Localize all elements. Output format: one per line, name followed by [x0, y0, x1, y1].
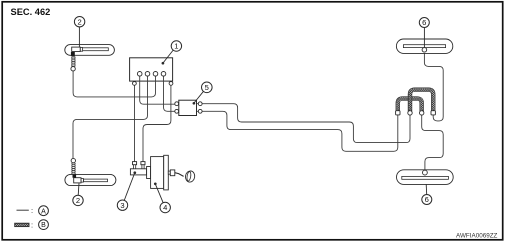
front LH caliper fitting box: [72, 47, 81, 51]
master cylinder fitting 2 square: [141, 162, 145, 165]
label 5 leader: [193, 91, 204, 104]
label 2 bottom leader: [77, 183, 80, 195]
svg-text::: :: [31, 221, 33, 230]
master cylinder fitting 1 legs: [134, 165, 136, 169]
connector block 5 body: [179, 100, 197, 115]
label 2 bottom circle: [73, 195, 83, 205]
label 6 top circle: [419, 18, 429, 28]
master cylinder M/C body: [130, 169, 146, 175]
front RH flex coil: [72, 163, 76, 174]
svg-text:5: 5: [205, 83, 209, 92]
booster flange: [147, 167, 151, 179]
rear LH inner slot: [403, 45, 445, 48]
small n-tube hatched core: [398, 99, 422, 112]
wire W5: port1 of U1 to connector 5 upper left port: [140, 76, 175, 105]
wire W8: connector 5 lower right port to rear RH hose leg f1: [202, 111, 398, 151]
front LH hose end ball: [71, 67, 75, 71]
wire W2: port2 of U1 to front RH hose: [73, 76, 148, 159]
front LH hose anchor (solid): [71, 52, 75, 56]
U1 port 1: [137, 72, 142, 77]
legend line sample A: [17, 209, 29, 211]
label 1 circle: [171, 41, 181, 51]
U1 port 3: [153, 72, 158, 77]
connector 5 right upper port: [197, 103, 199, 105]
svg-text:A: A: [41, 208, 46, 215]
legend hose sample B: [15, 223, 29, 226]
pedal pad eye: [185, 170, 196, 183]
big n-tube hatched core: [410, 90, 433, 112]
svg-text::: :: [31, 206, 33, 215]
front LH brake rotor (stadium): [65, 45, 115, 56]
U1 port 4: [161, 72, 166, 77]
front LH inner slot: [83, 48, 109, 51]
wire W6: port4 of U1 to connector 5 lower left port: [164, 76, 176, 112]
rear hose small n-tube outline (f1 to f3): [398, 99, 422, 112]
svg-text:6: 6: [425, 195, 429, 204]
label 6 top leader: [423, 28, 425, 48]
front RH slot nib: [81, 179, 83, 183]
label 2 top circle: [74, 17, 84, 27]
label 6 bottom circle: [422, 195, 432, 205]
label 1 leader: [162, 50, 174, 64]
wire W4: U1 right port to master cylinder secondary: [143, 85, 171, 161]
front RH brake rotor (stadium): [65, 174, 116, 185]
rear RH inner slot: [402, 176, 449, 179]
wire W9: hose leg f4 to rear LH brake: [424, 51, 443, 121]
ABS actuator U1 body: [130, 58, 173, 81]
rear LH brake rotor (stadium): [396, 39, 452, 53]
label 5 circle: [202, 82, 213, 93]
booster pushrod stub: [168, 171, 170, 174]
U1 port 2: [145, 72, 150, 77]
booster rear shell: [164, 155, 169, 190]
svg-text:2: 2: [76, 196, 80, 205]
brake booster body: [151, 157, 164, 189]
label 4 circle: [160, 202, 170, 212]
connector 5 left upper port: [175, 102, 179, 106]
booster pushrod square: [170, 170, 175, 176]
rear RH brake rotor (stadium): [397, 170, 454, 185]
label 2 top leader: [78, 27, 80, 48]
label 3 leader: [124, 171, 136, 200]
svg-text:1: 1: [174, 42, 178, 51]
svg-text:6: 6: [422, 18, 426, 27]
front LH slot nib: [80, 48, 82, 52]
legend circle B: [39, 220, 49, 230]
hose fitting f4: [431, 111, 435, 115]
rear RH pipe port: [423, 170, 428, 175]
svg-text:B: B: [41, 222, 46, 229]
U1 right outlet: [169, 82, 173, 86]
rear LH pipe port: [422, 48, 427, 53]
label 4 leader: [154, 182, 163, 202]
hose fitting f2: [408, 111, 412, 115]
U1 left outlet: [133, 82, 137, 86]
master cylinder fitting 2 legs: [142, 165, 144, 169]
front RH inner slot: [83, 179, 107, 182]
svg-text:SEC. 462: SEC. 462: [11, 7, 51, 17]
front RH hose anchor (solid): [73, 174, 77, 178]
svg-text:3: 3: [120, 201, 124, 210]
wire W10: hose leg f3 to rear RH brake: [422, 115, 444, 172]
svg-text:4: 4: [163, 203, 167, 212]
hose fitting f3: [420, 111, 424, 115]
rear hose big n-tube outline (f2 to f4): [410, 90, 433, 112]
hose fitting f1: [396, 111, 400, 115]
front RH caliper fitting box: [74, 178, 81, 183]
master cylinder fitting 1 square: [133, 162, 137, 165]
legend circle A: [39, 206, 49, 216]
wire W7: connector 5 upper right port to rear LH hose leg f2: [202, 104, 410, 143]
svg-text:AWFIA0069ZZ: AWFIA0069ZZ: [456, 232, 498, 239]
connector 5 right lower port: [197, 110, 199, 112]
front RH hose end ball: [71, 158, 75, 162]
label 3 circle: [117, 200, 127, 210]
connector 5 left lower port: [175, 109, 179, 113]
front LH flex coil: [72, 56, 76, 66]
wire W3: U1 left port to master cylinder primary: [134, 85, 136, 161]
label 6 bottom leader: [425, 184, 428, 194]
wire W1: port3 of U1 to front LH hose: [73, 71, 155, 97]
svg-text:2: 2: [77, 17, 81, 26]
pushrod link: [175, 173, 184, 177]
